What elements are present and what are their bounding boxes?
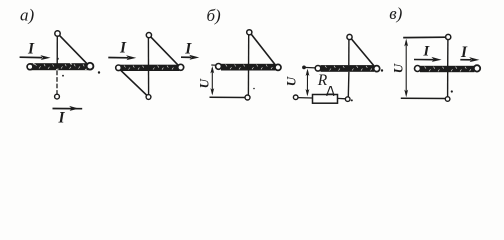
current arrow I out (fig a1 bottom) [53, 106, 83, 111]
svg-text:б): б) [207, 6, 222, 25]
svg-text:U: U [196, 78, 211, 88]
bottom conductor line (fig v) [401, 97, 445, 99]
bus right terminal circle / clamp hinge (fig a1) [87, 63, 94, 70]
tap stub wire (fig b2) [304, 66, 315, 69]
resistor subscript d [326, 87, 334, 96]
bottom node circle (fig b1) [245, 95, 250, 100]
bus left terminal circle (fig b2) [315, 66, 321, 72]
stray mark on clamp wire (fig a1) [57, 58, 59, 60]
clamp pivot circle top (fig b1) [247, 30, 252, 35]
top node circle (fig v) [446, 34, 451, 39]
bus right terminal circle / clamp hinge (fig b1) [275, 64, 281, 70]
stray dot right of junction (fig b2) [351, 99, 353, 101]
busbar (fig b2) [321, 65, 375, 72]
current arrow I (fig v left) [414, 57, 442, 62]
svg-text:I: I [184, 40, 192, 57]
svg-text:в): в) [389, 4, 402, 23]
wire resistor to junction (fig b2) [337, 97, 345, 99]
stray dot right of bus (fig b2) [381, 69, 383, 71]
current arrow I (fig a2 left) [108, 55, 136, 60]
svg-text:U: U [283, 76, 298, 86]
svg-text:U: U [390, 63, 405, 73]
busbar (fig b1) [221, 64, 276, 71]
svg-text:I: I [57, 109, 65, 123]
clamp vertical wire above bus (fig b2) [348, 40, 350, 66]
bottom node circle (fig v) [445, 97, 450, 102]
tap node dot (fig b2) [302, 66, 306, 70]
current arrow I (fig v right) [460, 57, 479, 62]
vertical wire bus to bottom node (fig v) [447, 72, 449, 97]
busbar (fig a1) [30, 63, 89, 70]
clamp pivot circle top (fig a1) [55, 31, 60, 36]
voltage dimension double arrow U (fig b1) [210, 66, 214, 96]
bus left terminal circle (fig a1) [27, 64, 33, 70]
current arrow I into bus (fig a1 left) [20, 55, 51, 60]
bottom left node circle (fig b2) [293, 95, 298, 100]
voltage dimension double arrow U (fig b2) [306, 69, 310, 97]
bus right terminal circle / clamp hinge (fig b2) [374, 66, 380, 72]
top conductor line (fig v) [403, 36, 446, 38]
clamp pivot circle top (fig b2) [347, 34, 352, 39]
clamp vertical wire through bus (fig a2) [147, 38, 149, 95]
clamp jaw diagonal (fig b1) [251, 34, 275, 65]
clamp jaw diagonal (fig b2) [352, 39, 375, 66]
wire node to resistor (fig b2) [298, 97, 313, 99]
bus left terminal circle (fig a2) [116, 65, 122, 71]
busbar (fig v) [420, 66, 475, 72]
bus left terminal circle (fig b1) [216, 64, 222, 70]
dashed lead below bus (fig a1) [56, 71, 58, 95]
bus right terminal circle / clamp hinge (fig a2) [178, 64, 184, 70]
stray dot (fig b1) [253, 88, 255, 90]
svg-text:а): а) [20, 5, 35, 24]
stray dot below bus (fig a1) [62, 75, 64, 77]
clamp jaw vertical wire (fig a1) [56, 36, 58, 63]
busbar (fig a2) [119, 65, 179, 71]
bottom conductor line (fig b1) [210, 96, 246, 98]
bus left terminal circle (fig v) [415, 66, 421, 72]
svg-text:I: I [27, 40, 35, 57]
voltage dimension double arrow U (fig v) [404, 39, 408, 98]
resistor Rd box (fig b2) [313, 95, 338, 104]
clamp lower jaw diagonal (fig a2) [121, 70, 147, 95]
bottom node circle (fig a1) [55, 94, 60, 99]
svg-text:I: I [119, 39, 127, 56]
tap stub wire (fig b1) [211, 64, 216, 66]
clamp jaw diagonal (fig a1) [60, 35, 88, 64]
junction circle right of resistor (fig b2) [345, 97, 350, 102]
stray dot near bottom wire (fig v) [451, 90, 453, 92]
svg-text:I: I [422, 44, 430, 60]
current arrow I (fig a2 right) [181, 55, 199, 60]
clamp vertical wire down to node (fig b1) [247, 35, 249, 95]
bus right terminal circle (fig v) [474, 65, 480, 71]
stray dot right of bus (fig a1) [98, 71, 100, 73]
clamp pivot circle top (fig a2) [146, 33, 151, 38]
vertical wire top circle to bus (fig v) [447, 40, 449, 66]
wire from bus down to resistor junction (fig b2) [347, 72, 350, 97]
svg-text:I: I [460, 44, 468, 61]
bottom node circle (fig a2) [146, 95, 151, 100]
svg-text:R: R [317, 72, 328, 89]
clamp upper jaw diagonal (fig a2) [151, 37, 179, 65]
